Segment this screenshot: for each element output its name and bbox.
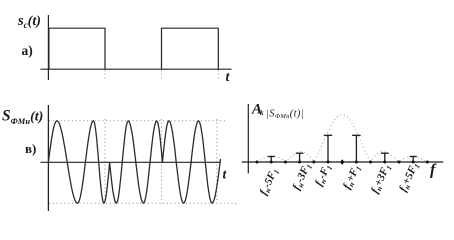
axis label f_n-5F1	[257, 166, 281, 197]
plot v: label S_FMn(t)	[2, 108, 43, 127]
svg-text:а): а)	[22, 43, 33, 58]
spectral line f_n-5F1	[268, 157, 275, 163]
svg-text:t: t	[223, 168, 228, 183]
axis label f_n+3F1	[369, 162, 394, 195]
spectral line f_n+3F1	[381, 153, 389, 162]
spectral line f_n+5F1	[410, 157, 417, 163]
spectral line f_n+F1	[352, 135, 361, 162]
plot v: dotted level line top	[49, 120, 228, 122]
plot a: axis label t	[226, 70, 231, 85]
axis label f_n-F1	[313, 162, 335, 188]
plot a: pulse 2 of square wave	[162, 28, 219, 69]
spectrum: vertical axis	[247, 104, 249, 174]
svg-text:t: t	[226, 70, 231, 85]
plot a: label s_c(t)	[17, 13, 41, 30]
plot v: dotted vertical at third phase switch	[216, 119, 218, 204]
plot v: PSK signal waveform	[48, 121, 220, 203]
plot a: dotted tick below axis at pulse1 end	[104, 70, 106, 80]
svg-text:fн+F1: fн+F1	[341, 163, 364, 191]
spectral line f_n-3F1	[296, 153, 304, 162]
spectrum: node dots on frequency axis	[256, 161, 429, 164]
plot a: dotted tick below axis at pulse2 start	[161, 70, 163, 80]
plot v: vertical axis	[47, 105, 49, 212]
spectrum: axis label f	[430, 162, 437, 179]
svg-text:Ak: Ak	[251, 101, 264, 117]
axis label f_n-3F1	[290, 161, 314, 192]
svg-text:fн-5F1: fн-5F1	[257, 166, 281, 197]
spectrum: label |S_FMn(t)|	[266, 108, 304, 120]
spectrum: carrier frequency diamond marker at f_n	[340, 159, 344, 165]
svg-text:в): в)	[25, 141, 36, 156]
plot a: panel label а)	[22, 43, 33, 58]
svg-text:sс(t): sс(t)	[17, 13, 41, 30]
plot v: dotted vertical at second phase switch	[161, 119, 163, 204]
plot v: time axis	[41, 161, 221, 163]
plot v: dotted level line bottom	[49, 202, 239, 204]
plot a: pulse 1 of square wave	[49, 28, 105, 69]
svg-text:f: f	[430, 162, 437, 179]
svg-text:|SФМн(t)|: |SФМн(t)|	[266, 108, 304, 120]
spectrum: dotted sinc envelope	[257, 115, 427, 163]
plot v: dotted vertical at first phase switch	[104, 119, 106, 204]
spectral line f_n-F1	[324, 135, 332, 162]
svg-text:fн-F1: fн-F1	[313, 162, 335, 188]
plot a: time axis	[41, 68, 232, 70]
plot v: axis label t	[223, 168, 228, 183]
svg-text:fн-3F1: fн-3F1	[290, 161, 314, 192]
svg-text:fн+3F1: fн+3F1	[369, 162, 394, 195]
axis label f_n+5F1	[397, 161, 422, 194]
plot a: vertical axis	[47, 15, 49, 80]
plot a: dotted tick below axis at pulse2 end	[217, 70, 219, 80]
plot v: panel label в)	[25, 141, 36, 156]
spectrum: label A_k	[251, 101, 264, 117]
svg-text:fн+5F1: fн+5F1	[397, 161, 422, 194]
svg-text:SФМн(t): SФМн(t)	[2, 108, 43, 127]
axis label f_n+F1	[341, 163, 364, 191]
spectrum: frequency axis	[242, 161, 443, 163]
